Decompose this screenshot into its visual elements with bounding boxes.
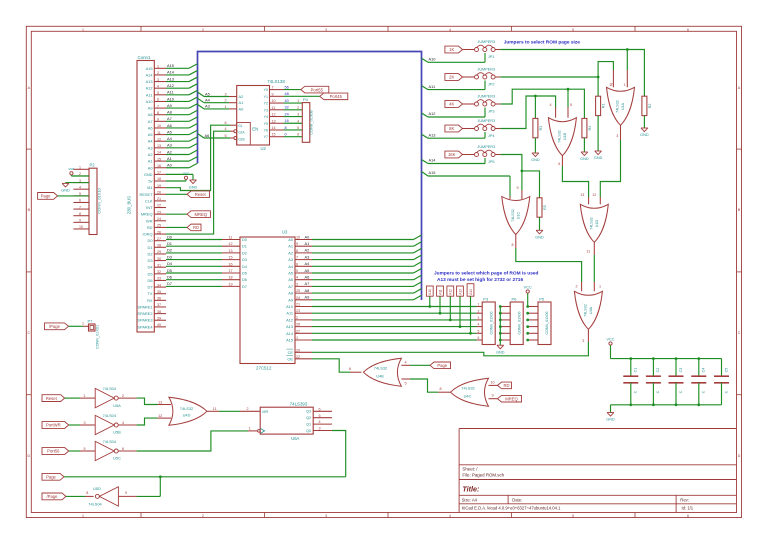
svg-text:Y2: Y2 bbox=[264, 102, 268, 106]
svg-text:74LS32: 74LS32 bbox=[511, 209, 515, 222]
svg-text:File: Paged ROM.sch: File: Paged ROM.sch bbox=[462, 472, 504, 477]
svg-text:RX: RX bbox=[147, 298, 153, 303]
EPROM U3 27C512 bbox=[240, 230, 295, 371]
svg-text:D7: D7 bbox=[242, 284, 247, 289]
wire U1D output to U4A bbox=[586, 242, 601, 291]
svg-text:GND: GND bbox=[535, 236, 544, 240]
svg-text:A4: A4 bbox=[205, 98, 211, 103]
svg-text:A1: A1 bbox=[288, 244, 293, 249]
svg-text:2: 2 bbox=[611, 82, 613, 86]
svg-text:D0: D0 bbox=[242, 237, 248, 242]
wire IORQ from Conn1 pin 26 to U2 enable G2A bbox=[166, 127, 234, 234]
svg-text:1: 1 bbox=[624, 83, 626, 87]
svg-text:A8: A8 bbox=[288, 291, 293, 296]
svg-text:A4: A4 bbox=[148, 139, 154, 144]
label Port56 input bbox=[42, 447, 95, 455]
svg-text:9: 9 bbox=[272, 92, 274, 96]
svg-text:A11: A11 bbox=[146, 92, 153, 97]
svg-text:A14: A14 bbox=[429, 158, 437, 163]
svg-text:8: 8 bbox=[440, 387, 442, 391]
svg-text:A11: A11 bbox=[286, 311, 293, 316]
svg-text:5: 5 bbox=[572, 28, 574, 32]
wire U5B to U4D bbox=[118, 414, 171, 425]
svg-text:RD: RD bbox=[503, 383, 509, 388]
svg-text:A0: A0 bbox=[305, 234, 311, 239]
svg-text:GND: GND bbox=[189, 186, 198, 190]
svg-text:9: 9 bbox=[125, 491, 127, 495]
svg-text:CE: CE bbox=[288, 350, 294, 355]
svg-text:U5C: U5C bbox=[113, 456, 121, 461]
svg-text:JUMPER3: JUMPER3 bbox=[477, 67, 495, 71]
svg-text:2: 2 bbox=[575, 285, 577, 289]
label 1K bbox=[445, 46, 463, 53]
svg-text:U5A: U5A bbox=[113, 403, 121, 408]
label MREQ at U4C input bbox=[489, 394, 522, 402]
svg-text:1: 1 bbox=[79, 166, 81, 170]
svg-text:A2: A2 bbox=[239, 94, 244, 99]
svg-text:CONN_01X06: CONN_01X06 bbox=[517, 312, 521, 335]
svg-text:D4: D4 bbox=[242, 264, 248, 269]
svg-text:A12: A12 bbox=[146, 86, 153, 91]
svg-text:Q1: Q1 bbox=[306, 423, 311, 427]
svg-text:A15: A15 bbox=[286, 338, 293, 343]
svg-text:A2: A2 bbox=[305, 248, 310, 253]
inverter U5D 74LS04 bbox=[88, 486, 118, 506]
svg-text:74LS393: 74LS393 bbox=[290, 401, 308, 406]
svg-text:IORQ: IORQ bbox=[143, 232, 153, 237]
svg-text:A1: A1 bbox=[167, 156, 172, 161]
svg-text:6: 6 bbox=[687, 28, 689, 32]
svg-text:Sheet: /: Sheet: / bbox=[462, 467, 478, 472]
svg-text:Y0: Y0 bbox=[264, 88, 268, 92]
svg-text:10: 10 bbox=[272, 99, 276, 103]
wire U4D output to U6A MR bbox=[207, 407, 260, 412]
svg-text:3: 3 bbox=[478, 316, 480, 320]
resistor R2 bbox=[642, 96, 652, 115]
svg-text:11: 11 bbox=[586, 249, 590, 253]
svg-text:Title:: Title: bbox=[462, 485, 480, 494]
svg-text:JUMPER3: JUMPER3 bbox=[477, 40, 495, 44]
svg-text:A15: A15 bbox=[146, 66, 153, 71]
svg-text:A10: A10 bbox=[286, 304, 294, 309]
svg-text:CONN_01X10: CONN_01X10 bbox=[97, 187, 102, 213]
svg-text:8K: 8K bbox=[449, 126, 454, 131]
svg-text:U3: U3 bbox=[282, 230, 288, 235]
label 8K bbox=[445, 125, 463, 132]
svg-text:RD: RD bbox=[193, 225, 199, 230]
svg-text:U1C: U1C bbox=[516, 211, 520, 219]
svg-text:1: 1 bbox=[599, 285, 601, 289]
svg-text:D4: D4 bbox=[167, 261, 173, 266]
capacitor C2 bbox=[646, 357, 661, 406]
svg-text:U1B: U1B bbox=[563, 132, 567, 140]
svg-text:A3: A3 bbox=[167, 143, 172, 148]
svg-text:27: 27 bbox=[296, 329, 300, 333]
ground below R1 bbox=[594, 116, 603, 161]
connector P6 ground header bbox=[499, 297, 523, 346]
svg-text:A2: A2 bbox=[148, 152, 153, 157]
wires Conn1 A15-A0 to bus with bus entries bbox=[166, 63, 198, 168]
svg-text:P5: P5 bbox=[539, 297, 545, 302]
svg-text:/Page: /Page bbox=[49, 324, 61, 329]
svg-text:RESET: RESET bbox=[140, 192, 154, 197]
svg-text:A9: A9 bbox=[305, 295, 310, 300]
svg-text:A11: A11 bbox=[429, 84, 436, 89]
svg-text:A6: A6 bbox=[205, 133, 210, 138]
capacitor C5 bbox=[714, 359, 729, 405]
jumper JP5 bbox=[463, 145, 501, 164]
svg-text:P2: P2 bbox=[90, 162, 96, 167]
svg-text:WR: WR bbox=[146, 218, 153, 223]
ground below R4 bbox=[580, 138, 589, 161]
svg-text:10: 10 bbox=[79, 225, 83, 229]
svg-text:R1: R1 bbox=[602, 104, 606, 109]
svg-text:GND: GND bbox=[606, 418, 615, 422]
svg-text:A11: A11 bbox=[167, 90, 174, 95]
capacitor C3 bbox=[669, 357, 684, 406]
svg-text:D6: D6 bbox=[148, 278, 153, 283]
svg-text:C: C bbox=[738, 331, 741, 335]
wire A15 from bus to U1C bbox=[422, 170, 511, 199]
wire A14 from bus to JP5 bbox=[422, 158, 486, 164]
resistor R5 bbox=[537, 198, 547, 217]
svg-text:A14: A14 bbox=[286, 331, 294, 336]
svg-text:15: 15 bbox=[272, 133, 276, 137]
svg-text:U4C: U4C bbox=[464, 393, 472, 398]
svg-text:A5: A5 bbox=[167, 129, 172, 134]
svg-text:GND: GND bbox=[594, 156, 603, 160]
svg-text:2: 2 bbox=[225, 99, 227, 103]
svg-text:13: 13 bbox=[158, 400, 162, 404]
svg-text:G2A: G2A bbox=[238, 131, 245, 135]
svg-text:1: 1 bbox=[82, 514, 84, 518]
jumper JP4 bbox=[463, 119, 501, 138]
svg-text:12: 12 bbox=[158, 414, 162, 418]
capacitor C4 bbox=[691, 357, 706, 406]
svg-text:A12: A12 bbox=[449, 289, 453, 295]
svg-text:M1: M1 bbox=[147, 185, 152, 190]
pin numbers U1A inputs bbox=[611, 82, 613, 86]
svg-text:A6: A6 bbox=[148, 125, 153, 130]
svg-text:D2: D2 bbox=[167, 248, 172, 253]
svg-text:PortWR: PortWR bbox=[46, 423, 61, 428]
ground below capacitor bank bbox=[606, 413, 615, 422]
svg-text:vcc: vcc bbox=[183, 172, 189, 176]
svg-text:6: 6 bbox=[79, 199, 81, 203]
wire U5A to U4D bbox=[118, 394, 171, 405]
svg-text:U6A: U6A bbox=[291, 436, 299, 441]
labels A10-A14 taps above P3 bbox=[426, 284, 474, 335]
svg-text:A12: A12 bbox=[429, 111, 436, 116]
svg-text:CONN_01X08: CONN_01X08 bbox=[310, 110, 314, 134]
svg-text:6: 6 bbox=[349, 367, 351, 371]
svg-text:A7: A7 bbox=[148, 119, 153, 124]
inverter U5C 74LS04 bbox=[95, 439, 121, 461]
svg-text:A2: A2 bbox=[167, 149, 172, 154]
wire JP2 to U1A and R1 bbox=[501, 62, 614, 97]
wire U4B output to OE bbox=[349, 367, 361, 372]
capacitor C1 bbox=[623, 357, 638, 406]
svg-text:A12: A12 bbox=[167, 83, 174, 88]
svg-text:12: 12 bbox=[272, 113, 276, 117]
svg-text:27C512: 27C512 bbox=[256, 366, 272, 371]
wire U1A output to U1D bbox=[592, 125, 620, 204]
svg-text:Y4: Y4 bbox=[264, 115, 268, 119]
jumper JP3 bbox=[463, 94, 501, 113]
svg-text:18: 18 bbox=[229, 276, 233, 280]
svg-text:16K: 16K bbox=[448, 152, 456, 157]
svg-text:Q3: Q3 bbox=[306, 410, 311, 414]
svg-text:4: 4 bbox=[297, 119, 299, 123]
svg-text:74LS32: 74LS32 bbox=[461, 386, 474, 391]
svg-text:P4: P4 bbox=[303, 97, 309, 102]
svg-text:A1: A1 bbox=[239, 100, 244, 105]
label 4K bbox=[445, 101, 463, 108]
svg-text:3: 3 bbox=[225, 93, 227, 97]
jumper JP2 bbox=[463, 67, 501, 86]
wire U5C to U6A clock bbox=[118, 427, 258, 451]
svg-text:GND: GND bbox=[496, 350, 505, 354]
svg-text:6: 6 bbox=[122, 447, 124, 451]
note text page select bbox=[434, 271, 539, 284]
svg-text:4K: 4K bbox=[449, 102, 454, 107]
svg-text:P6: P6 bbox=[512, 297, 518, 302]
svg-text:17: 17 bbox=[229, 269, 233, 273]
svg-text:CONN_01X01: CONN_01X01 bbox=[96, 325, 100, 349]
svg-text:Page: Page bbox=[437, 363, 447, 368]
svg-text:Id: 1/1: Id: 1/1 bbox=[682, 506, 694, 511]
svg-text:3: 3 bbox=[319, 427, 321, 431]
svg-text:GND: GND bbox=[640, 133, 649, 137]
svg-text:6: 6 bbox=[687, 514, 689, 518]
resistor R3 bbox=[533, 118, 543, 137]
wire CE from U3 pin 20 bbox=[295, 342, 588, 356]
svg-text:3: 3 bbox=[582, 339, 584, 343]
svg-text:Date:: Date: bbox=[512, 498, 522, 503]
or-gate U1B 74LS32 bbox=[548, 118, 576, 156]
svg-text:9: 9 bbox=[296, 242, 298, 246]
svg-text:1: 1 bbox=[84, 394, 86, 398]
svg-text:74LS32: 74LS32 bbox=[180, 406, 193, 411]
note text ROM page size bbox=[504, 39, 581, 45]
svg-text:21: 21 bbox=[296, 303, 300, 307]
svg-text:MREQ: MREQ bbox=[505, 396, 518, 401]
svg-text:1: 1 bbox=[297, 99, 299, 103]
svg-text:1: 1 bbox=[249, 427, 251, 431]
svg-text:74LS04: 74LS04 bbox=[103, 386, 117, 391]
svg-text:vcc: vcc bbox=[69, 167, 75, 171]
connector P2 bbox=[73, 162, 101, 234]
or-gate U1C 74LS32 bbox=[502, 197, 530, 235]
svg-text:JP2: JP2 bbox=[488, 83, 495, 87]
svg-text:RD: RD bbox=[147, 225, 153, 230]
svg-text:D0: D0 bbox=[167, 234, 173, 239]
svg-text:1: 1 bbox=[296, 336, 298, 340]
svg-text:U5B: U5B bbox=[113, 430, 121, 435]
svg-text:JUMPER3: JUMPER3 bbox=[477, 119, 495, 123]
svg-text:3: 3 bbox=[84, 421, 86, 425]
svg-text:Conn1: Conn1 bbox=[138, 55, 151, 60]
svg-text:5: 5 bbox=[296, 269, 298, 273]
svg-text:VCC: VCC bbox=[606, 337, 614, 341]
svg-text:D: D bbox=[738, 454, 741, 458]
svg-text:C: C bbox=[27, 331, 30, 335]
svg-text:A0: A0 bbox=[148, 165, 154, 170]
svg-text:A4: A4 bbox=[167, 136, 173, 141]
svg-text:8: 8 bbox=[285, 126, 287, 130]
svg-text:A8: A8 bbox=[305, 288, 310, 293]
svg-text:6: 6 bbox=[558, 162, 560, 166]
svg-text:JUMPER3: JUMPER3 bbox=[477, 94, 495, 98]
svg-text:A7: A7 bbox=[288, 284, 293, 289]
svg-text:P7: P7 bbox=[88, 318, 94, 323]
label Page at P2 pin 5 bbox=[38, 193, 89, 200]
svg-text:74LS32: 74LS32 bbox=[590, 217, 594, 230]
svg-text:A10: A10 bbox=[429, 57, 437, 62]
svg-text:1: 1 bbox=[478, 303, 480, 307]
svg-text:Rev:: Rev: bbox=[680, 498, 689, 503]
svg-text:1: 1 bbox=[225, 105, 227, 109]
svg-text:R5: R5 bbox=[543, 205, 547, 210]
svg-text:26: 26 bbox=[296, 323, 300, 327]
svg-text:D1: D1 bbox=[167, 241, 172, 246]
svg-text:A13: A13 bbox=[429, 132, 436, 137]
svg-text:74LS32: 74LS32 bbox=[616, 100, 620, 113]
svg-text:19: 19 bbox=[229, 282, 233, 286]
ground below P6 bbox=[496, 345, 505, 354]
svg-text:A14: A14 bbox=[167, 70, 175, 75]
svg-text:GND: GND bbox=[580, 157, 589, 161]
svg-text:A2: A2 bbox=[288, 250, 293, 255]
label Page at U4B input bbox=[401, 360, 450, 368]
svg-text:Z80_BUS: Z80_BUS bbox=[127, 196, 132, 214]
svg-text:A10: A10 bbox=[167, 96, 175, 101]
wire U1C output to U4A bbox=[512, 235, 582, 292]
svg-text:A0: A0 bbox=[167, 163, 173, 168]
svg-text:C1: C1 bbox=[634, 368, 638, 373]
svg-text:4: 4 bbox=[225, 127, 227, 131]
label Reset input bbox=[42, 394, 95, 402]
svg-text:5v: 5v bbox=[148, 179, 152, 184]
svg-text:INT: INT bbox=[146, 205, 153, 210]
title block bbox=[459, 429, 736, 513]
svg-text:SPARE1: SPARE1 bbox=[137, 304, 152, 309]
svg-text:GND: GND bbox=[61, 189, 70, 193]
svg-text:12: 12 bbox=[229, 242, 233, 246]
svg-text:CLK: CLK bbox=[145, 198, 153, 203]
svg-text:Size: A4: Size: A4 bbox=[462, 498, 478, 503]
svg-text:KiCad E.D.A. kicad 4.0.9+e0+6: KiCad E.D.A. kicad 4.0.9+e0+6327~47ubunt… bbox=[462, 506, 562, 511]
svg-text:23: 23 bbox=[296, 309, 300, 313]
label MREQ at Conn1 pin 23 bbox=[166, 211, 211, 218]
label Page output bbox=[42, 473, 346, 480]
svg-text:14: 14 bbox=[272, 126, 276, 130]
power VCC above P5 bbox=[524, 285, 532, 293]
svg-text:74LS32: 74LS32 bbox=[558, 130, 562, 143]
connector P4 bbox=[297, 97, 313, 142]
svg-text:A3: A3 bbox=[288, 257, 293, 262]
svg-text:2: 2 bbox=[297, 106, 299, 110]
svg-text:C5: C5 bbox=[724, 368, 728, 373]
svg-text:EN: EN bbox=[252, 127, 258, 132]
svg-text:A8: A8 bbox=[167, 110, 172, 115]
svg-text:20: 20 bbox=[296, 348, 300, 352]
svg-text:3: 3 bbox=[325, 28, 327, 32]
bus Z80 address bus bbox=[198, 52, 422, 301]
svg-text:A13 must be set high for 2732: A13 must be set high for 2732 or 2716 bbox=[437, 277, 523, 283]
svg-text:74LS04: 74LS04 bbox=[103, 439, 117, 444]
svg-text:A13: A13 bbox=[146, 79, 153, 84]
wire U4A output to CE bbox=[582, 329, 588, 343]
svg-text:JP5: JP5 bbox=[488, 160, 495, 164]
svg-text:9: 9 bbox=[492, 394, 494, 398]
svg-text:U1A: U1A bbox=[621, 102, 625, 110]
svg-text:5: 5 bbox=[225, 134, 227, 138]
svg-text:5: 5 bbox=[570, 103, 572, 107]
svg-text:C2: C2 bbox=[656, 368, 660, 373]
svg-text:R3: R3 bbox=[539, 126, 543, 131]
decoder U2 74LS138 bbox=[234, 79, 285, 151]
svg-text:4: 4 bbox=[550, 103, 552, 107]
svg-text:16: 16 bbox=[285, 119, 289, 123]
svg-text:/Page: /Page bbox=[47, 494, 59, 499]
svg-text:G1: G1 bbox=[238, 124, 242, 128]
svg-text:Reset: Reset bbox=[195, 192, 207, 197]
svg-text:48: 48 bbox=[285, 92, 289, 96]
wire M1 from Conn1 pin 19 to U2 enable G1 bbox=[166, 121, 237, 191]
svg-text:Port55: Port55 bbox=[311, 87, 324, 92]
svg-text:6: 6 bbox=[478, 336, 480, 340]
svg-text:Jumpers to select ROM page siz: Jumpers to select ROM page size bbox=[504, 39, 581, 45]
svg-text:D5: D5 bbox=[242, 271, 247, 276]
svg-text:A1: A1 bbox=[305, 241, 310, 246]
wire JP3 to U1B and R4 bbox=[501, 88, 585, 119]
svg-text:D3: D3 bbox=[148, 258, 153, 263]
ground below R2 bbox=[640, 116, 649, 138]
svg-text:5: 5 bbox=[405, 381, 407, 385]
svg-text:12: 12 bbox=[592, 193, 596, 197]
svg-text:JUMPER3: JUMPER3 bbox=[477, 145, 495, 149]
svg-text:A1: A1 bbox=[148, 159, 153, 164]
svg-text:G2B: G2B bbox=[238, 137, 244, 141]
ground at P2 pin 3 bbox=[61, 183, 89, 193]
svg-text:U1D: U1D bbox=[595, 219, 599, 227]
label PortWR input bbox=[42, 421, 95, 429]
label 16K bbox=[445, 151, 463, 158]
svg-text:2: 2 bbox=[202, 28, 204, 32]
svg-text:U5D: U5D bbox=[93, 486, 101, 491]
svg-text:4: 4 bbox=[449, 28, 451, 32]
svg-text:A10: A10 bbox=[428, 289, 432, 295]
or-gate U1D 74LS32 bbox=[580, 204, 608, 242]
svg-text:Page: Page bbox=[41, 194, 51, 199]
svg-text:7: 7 bbox=[296, 256, 298, 260]
svg-text:A15: A15 bbox=[429, 170, 436, 175]
wire GND rail bbox=[611, 405, 722, 413]
svg-text:U4D: U4D bbox=[183, 413, 191, 418]
svg-text:D3: D3 bbox=[167, 254, 172, 259]
wire A10 from bus to JP1 bbox=[422, 53, 486, 62]
svg-text:8: 8 bbox=[79, 212, 81, 216]
svg-text:4: 4 bbox=[449, 514, 451, 518]
svg-text:2: 2 bbox=[296, 316, 298, 320]
wire A12 from bus to JP3 bbox=[422, 108, 486, 118]
svg-text:74LS32: 74LS32 bbox=[584, 304, 588, 317]
wires A10-A15 from U3 to P3 bbox=[295, 303, 477, 341]
svg-text:6: 6 bbox=[319, 407, 321, 411]
svg-text:3: 3 bbox=[296, 282, 298, 286]
svg-text:13: 13 bbox=[229, 249, 233, 253]
